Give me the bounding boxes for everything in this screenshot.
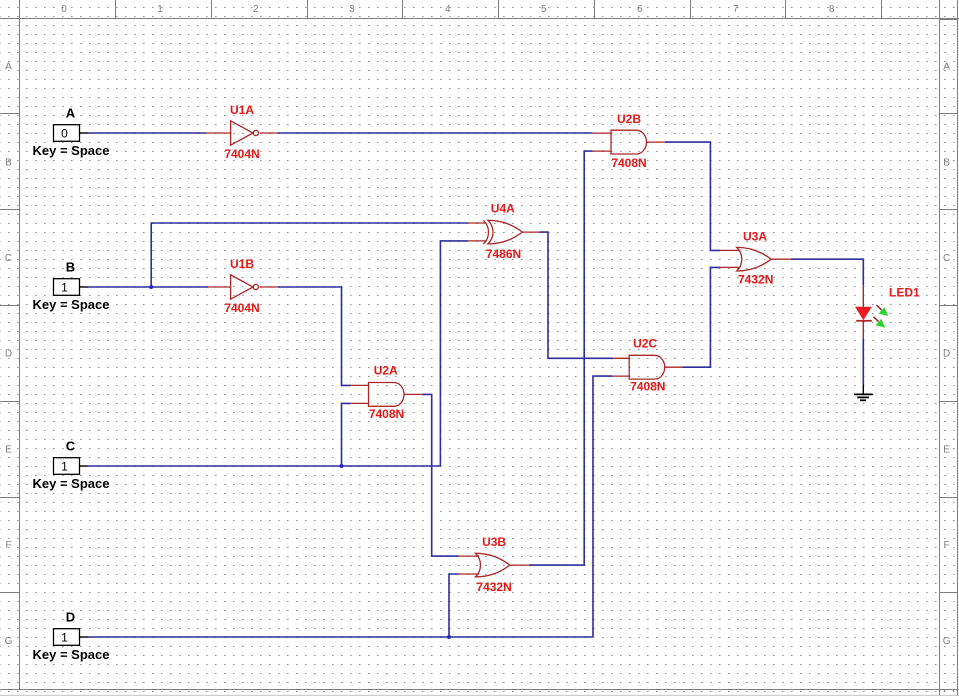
svg-text:D: D — [5, 349, 12, 360]
switch D — [33, 610, 110, 662]
junction node B — [149, 285, 153, 289]
svg-text:C: C — [66, 439, 76, 454]
inverter U1A 7404N — [206, 121, 278, 145]
LED arrow 1 — [876, 305, 881, 310]
svg-text:U2B: U2B — [617, 112, 641, 126]
svg-text:B: B — [943, 157, 950, 168]
svg-text:7432N: 7432N — [738, 273, 773, 287]
svg-text:E: E — [5, 444, 12, 455]
LED LED1 — [855, 285, 888, 338]
svg-text:F: F — [5, 540, 11, 551]
svg-text:A: A — [66, 106, 76, 121]
wire U3B output up to U2B input 2 — [529, 151, 593, 565]
svg-text:5: 5 — [541, 4, 547, 15]
wire D corner up to U2C input 2 — [593, 376, 612, 637]
svg-text:7486N: 7486N — [486, 247, 521, 261]
svg-text:1: 1 — [61, 280, 68, 294]
bottom edge line — [0, 694, 959, 696]
svg-text:A: A — [5, 62, 12, 73]
svg-text:7404N: 7404N — [224, 301, 259, 315]
AND gate U2C 7408N — [612, 355, 682, 379]
wire U3A output to LED1 — [791, 259, 864, 285]
svg-text:7408N: 7408N — [630, 380, 665, 394]
svg-text:C: C — [5, 253, 12, 264]
svg-text:2: 2 — [253, 4, 259, 15]
svg-text:Key = Space: Key = Space — [33, 647, 110, 662]
switch B — [33, 260, 110, 312]
OR gate U3A 7432N — [720, 247, 791, 271]
svg-text:F: F — [944, 540, 950, 551]
wire C corner up to U4A input 2 — [440, 241, 467, 466]
junction node D — [447, 635, 451, 639]
svg-text:1: 1 — [61, 630, 68, 644]
svg-text:7: 7 — [733, 4, 739, 15]
svg-text:B: B — [5, 157, 12, 168]
inverter U1B 7404N — [208, 275, 278, 299]
svg-text:U1B: U1B — [230, 257, 254, 271]
svg-text:0: 0 — [61, 4, 67, 15]
junction node C — [340, 464, 344, 468]
svg-text:Key = Space: Key = Space — [33, 476, 110, 491]
LED arrow 2 — [873, 317, 878, 322]
svg-text:7408N: 7408N — [611, 156, 646, 170]
XOR gate U4A 7486N — [468, 220, 540, 244]
svg-text:B: B — [66, 260, 75, 275]
wire U2A output down to U3B input 1 — [422, 394, 459, 556]
svg-text:A: A — [943, 62, 950, 73]
svg-text:8: 8 — [829, 4, 835, 15]
wire C to corner — [88, 465, 440, 467]
svg-text:Key = Space: Key = Space — [33, 143, 110, 158]
svg-text:6: 6 — [637, 4, 643, 15]
svg-text:1: 1 — [61, 459, 68, 473]
AND gate U2B 7408N — [592, 130, 664, 154]
ground — [854, 385, 873, 401]
wire B junction up to U4A input 1 — [151, 223, 467, 287]
svg-text:U3B: U3B — [482, 535, 506, 549]
svg-text:7432N: 7432N — [476, 580, 511, 594]
svg-text:U2C: U2C — [633, 337, 657, 351]
svg-text:C: C — [943, 253, 950, 264]
svg-text:3: 3 — [349, 4, 355, 15]
switch C — [33, 439, 110, 491]
svg-text:U4A: U4A — [491, 201, 515, 215]
svg-text:G: G — [5, 636, 13, 647]
wire D to corner — [88, 636, 593, 638]
svg-text:0: 0 — [61, 126, 68, 140]
switch A — [33, 106, 110, 158]
svg-text:E: E — [943, 444, 950, 455]
wire LED1 to ground — [862, 338, 864, 384]
wire C junction up to U2A input 2 — [342, 403, 351, 466]
wire D junction up to U3B input 2 — [449, 574, 459, 637]
wire U4A output down to U2C input 1 — [540, 232, 614, 358]
OR gate U3B 7432N — [459, 553, 529, 577]
svg-text:G: G — [943, 636, 951, 647]
wire U2B output down to U3A input 1 — [665, 142, 720, 250]
svg-text:LED1: LED1 — [889, 285, 920, 299]
svg-text:U3A: U3A — [743, 230, 767, 244]
wire U1A output to U2B input 1 — [278, 132, 593, 134]
svg-text:7408N: 7408N — [369, 407, 404, 421]
wire B to U1B input — [88, 286, 208, 288]
svg-text:Key = Space: Key = Space — [33, 297, 110, 312]
wire U2C output up to U3A input 2 — [682, 267, 720, 367]
wire U1B output to U2A input 1 — [278, 287, 351, 385]
svg-text:U2A: U2A — [374, 364, 398, 378]
wire A to U1A input — [88, 132, 206, 134]
svg-text:U1A: U1A — [230, 103, 254, 117]
svg-text:1: 1 — [157, 4, 163, 15]
svg-text:7404N: 7404N — [224, 147, 259, 161]
svg-text:D: D — [66, 610, 75, 625]
svg-text:4: 4 — [445, 4, 451, 15]
AND gate U2A 7408N — [351, 383, 422, 407]
svg-text:D: D — [943, 349, 950, 360]
